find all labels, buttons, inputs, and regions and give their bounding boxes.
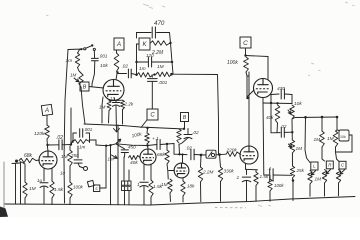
svg-text:120k: 120k xyxy=(34,131,45,137)
svg-text:2.2M: 2.2M xyxy=(202,170,214,175)
svg-text:.02: .02 xyxy=(122,64,129,69)
svg-text:18k: 18k xyxy=(187,184,195,189)
svg-text:68k: 68k xyxy=(157,152,165,158)
svg-text:1M: 1M xyxy=(61,154,68,160)
svg-text:100k: 100k xyxy=(274,183,284,188)
svg-text:.001: .001 xyxy=(84,127,93,132)
svg-text:.02: .02 xyxy=(192,130,199,136)
svg-text:1M: 1M xyxy=(296,146,303,152)
svg-text:B: B xyxy=(83,84,87,90)
svg-text:1u: 1u xyxy=(37,178,43,183)
svg-text:120: 120 xyxy=(146,53,154,58)
svg-text:1M: 1M xyxy=(314,137,321,143)
svg-text:1M: 1M xyxy=(315,177,322,182)
svg-text:12: 12 xyxy=(110,96,115,101)
svg-text:1M: 1M xyxy=(327,136,334,142)
svg-text:1.5k: 1.5k xyxy=(54,187,64,193)
svg-text:100k: 100k xyxy=(227,60,238,66)
svg-text:+.1: +.1 xyxy=(152,136,159,142)
svg-text:1: 1 xyxy=(237,175,240,181)
svg-text:1u: 1u xyxy=(60,171,66,176)
svg-text:40k: 40k xyxy=(266,115,274,120)
svg-text:330k: 330k xyxy=(224,169,235,174)
svg-text:10k: 10k xyxy=(100,63,108,69)
svg-text:100k: 100k xyxy=(73,185,84,190)
svg-text:10k: 10k xyxy=(340,135,346,139)
svg-text:C: C xyxy=(150,113,155,119)
svg-text:1M: 1M xyxy=(157,64,164,70)
svg-text:1M: 1M xyxy=(29,186,36,192)
svg-text:25k: 25k xyxy=(296,168,305,173)
svg-text:40k: 40k xyxy=(130,160,138,166)
svg-text:1M: 1M xyxy=(70,73,77,78)
svg-text:.001: .001 xyxy=(158,80,168,86)
svg-text:A: A xyxy=(44,108,49,114)
svg-text:1m: 1m xyxy=(79,145,86,150)
svg-text:C: C xyxy=(243,40,248,47)
svg-text:1M: 1M xyxy=(99,105,106,110)
svg-text:1m: 1m xyxy=(66,58,73,64)
svg-text:B: B xyxy=(183,115,187,121)
svg-text:470: 470 xyxy=(154,20,165,27)
svg-text:1m: 1m xyxy=(139,66,146,72)
svg-text:2.2k: 2.2k xyxy=(124,102,134,107)
svg-text:68k: 68k xyxy=(24,153,33,159)
svg-text:A: A xyxy=(116,42,121,48)
svg-text:10k: 10k xyxy=(294,101,302,107)
svg-text:1.5k: 1.5k xyxy=(153,184,163,190)
svg-text:.001: .001 xyxy=(99,54,108,59)
svg-text:220k: 220k xyxy=(226,147,238,152)
